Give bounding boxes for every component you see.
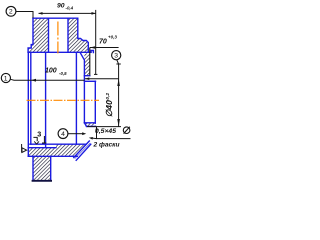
svg-text:-0,5: -0,5 — [59, 71, 67, 76]
svg-text:70: 70 — [99, 39, 107, 46]
svg-text:4: 4 — [61, 131, 65, 138]
svg-text:∅40: ∅40 — [104, 100, 114, 117]
svg-text:3: 3 — [37, 130, 41, 139]
svg-text:100: 100 — [45, 67, 57, 74]
svg-text:1: 1 — [4, 75, 8, 82]
svg-text:+0,3: +0,3 — [108, 35, 117, 40]
svg-text:2: 2 — [9, 9, 13, 16]
svg-text:-0,2: -0,2 — [105, 93, 111, 102]
svg-text:0,5×45: 0,5×45 — [95, 128, 116, 135]
svg-text:2 фаски: 2 фаски — [93, 141, 120, 148]
svg-text:3: 3 — [114, 53, 118, 60]
svg-text:90: 90 — [57, 2, 65, 9]
svg-text:-0,4: -0,4 — [66, 6, 74, 11]
